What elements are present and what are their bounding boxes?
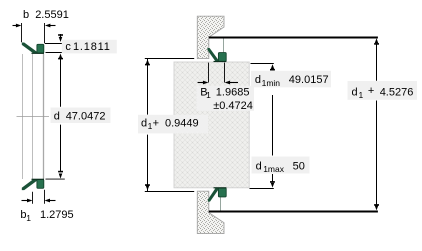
- dimension b: extension lines: [21, 23, 23, 42]
- svg-text:1.1811: 1.1811: [73, 41, 111, 53]
- housing block top: [197, 16, 224, 58]
- d1 extension line top (thick): [209, 37, 378, 39]
- svg-text:d: d: [352, 86, 358, 98]
- dimension B1: left extension line: [208, 63, 210, 83]
- seal body (top): [37, 44, 44, 53]
- svg-text:d: d: [141, 117, 147, 129]
- dimension b1: extension lines: [32, 192, 34, 204]
- svg-text:+: +: [153, 117, 159, 129]
- bore line top: [223, 38, 225, 53]
- seal body installed (bottom): [218, 188, 226, 197]
- seal lip (top): [22, 43, 37, 54]
- svg-text:47.0472: 47.0472: [66, 111, 106, 123]
- svg-text:1.2795: 1.2795: [40, 209, 74, 221]
- dimension d1+4.5276: label: [348, 81, 418, 100]
- dimension B1: left arrow: [198, 82, 204, 84]
- dimension d1+0.9449: bottom extension line: [145, 191, 194, 193]
- shaft: [174, 62, 249, 188]
- svg-text:±0.4724: ±0.4724: [213, 100, 253, 112]
- svg-text:d: d: [256, 160, 262, 172]
- dimension d1+4.5276: top arrow with tick: [375, 38, 379, 43]
- svg-text:d: d: [255, 74, 261, 86]
- dimension d1+0.9449: line: [147, 59, 149, 115]
- dimension c: extension lines: [45, 43, 65, 45]
- dimension d1+0.9449: top arrow with tick: [146, 59, 150, 64]
- svg-text:+: +: [368, 85, 374, 97]
- dimension d: bottom extension line: [46, 178, 65, 180]
- bore line bottom: [219, 197, 221, 211]
- dimension b: right arrow: [50, 25, 56, 27]
- dimension b1: left arrow: [22, 200, 29, 202]
- dimension d1min/d1max: bottom extension line: [250, 188, 274, 190]
- dimension b: left arrow: [13, 25, 18, 27]
- svg-text:1: 1: [206, 90, 211, 100]
- dimension d1max: label: [252, 157, 310, 174]
- housing block bottom: [197, 191, 224, 233]
- svg-text:1min: 1min: [262, 78, 281, 88]
- dimension d1min/d1max: middle line segment: [272, 95, 274, 156]
- seal body installed (top): [218, 53, 226, 62]
- dimension d1min/d1max: top extension line: [251, 63, 274, 65]
- dimension d1+4.5276: lower line segment: [376, 101, 378, 206]
- dimension d: line: [60, 59, 62, 107]
- seal body (bottom): [37, 179, 44, 188]
- svg-text:49.0157: 49.0157: [289, 74, 329, 86]
- centerline: [17, 116, 50, 118]
- svg-text:1: 1: [359, 90, 364, 100]
- dimension c: label mask: [62, 40, 117, 54]
- dimension d1+4.5276: bottom arrow with tick: [374, 204, 379, 206]
- dimension d1min/d1max: lower line segment: [272, 174, 274, 182]
- dimension d1+0.9449: label: [138, 115, 208, 134]
- seal lip installed (top): [207, 48, 218, 62]
- shaft continuation line middle: [32, 54, 34, 179]
- dimension c: bottom arrow with tick: [59, 54, 63, 59]
- seal bottom edge (top): [32, 52, 45, 54]
- shaft continuation line right: [43, 54, 45, 179]
- dimension d1+4.5276: upper line segment: [376, 44, 378, 81]
- svg-text:c: c: [65, 41, 71, 53]
- seal bottom edge installed (top): [214, 61, 227, 63]
- dimension d1+0.9449: bottom arrow with tick: [146, 186, 150, 191]
- svg-text:d: d: [54, 111, 60, 123]
- d1 extension line bottom (thick): [209, 211, 378, 213]
- dimension B1: right extension line: [224, 63, 226, 83]
- svg-text:1.9685: 1.9685: [216, 86, 250, 98]
- dimension B1: right arrow: [229, 82, 238, 84]
- dimension d1min/d1max: bottom arrow with tick: [270, 181, 275, 183]
- dimension d1+0.9449: top extension line: [145, 58, 194, 60]
- svg-text:0.9449: 0.9449: [165, 117, 199, 129]
- dimension d: bottom arrow with tick: [58, 171, 63, 173]
- dimension b1: right arrow: [49, 200, 56, 202]
- svg-text:1: 1: [26, 213, 31, 223]
- dimension B1: label mask: [197, 86, 255, 111]
- svg-text:1max: 1max: [263, 164, 285, 174]
- svg-text:2.5591: 2.5591: [35, 9, 69, 21]
- seal top edge installed (bottom): [214, 187, 227, 189]
- seal top edge (bottom): [32, 178, 45, 180]
- seal lip installed (bottom): [208, 188, 219, 202]
- dimension c: top arrow with tick: [58, 34, 63, 36]
- dimension d1min: label: [251, 71, 331, 88]
- seal lip (bottom, mirrored): [22, 179, 37, 190]
- dimension d: label: [51, 108, 111, 124]
- svg-text:50: 50: [293, 160, 305, 172]
- svg-text:4.5276: 4.5276: [380, 86, 414, 98]
- shaft continuation line left: [22, 54, 24, 179]
- dimension d1min/d1max: top arrow with tick: [271, 64, 275, 69]
- svg-text:b: b: [23, 9, 29, 21]
